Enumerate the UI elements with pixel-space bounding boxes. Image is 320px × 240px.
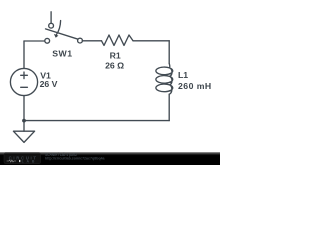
- wire right vertical lower: [168, 94, 170, 120]
- svg-text:SW1: SW1: [52, 48, 72, 58]
- svg-text:L1: L1: [178, 70, 188, 80]
- SW1 right terminal circle: [78, 38, 83, 43]
- ground symbol: [13, 131, 34, 142]
- wire V1 to junction: [23, 96, 25, 121]
- svg-text:26 Ω: 26 Ω: [105, 61, 124, 71]
- resistor R1 zigzag: [102, 35, 134, 45]
- svg-text:260 mH: 260 mH: [178, 81, 212, 91]
- svg-text:LAB: LAB: [22, 159, 35, 163]
- SW1 actuation arrow: [56, 21, 60, 35]
- wire switch to resistor: [82, 40, 101, 42]
- V1 minus sign: [21, 86, 28, 88]
- logo squiggle and LAB: [7, 160, 17, 162]
- ground stub wire: [23, 121, 25, 132]
- logo bolt dot: [19, 160, 20, 162]
- wire top-left horizontal: [24, 40, 45, 42]
- wire left vertical upper: [23, 41, 25, 68]
- svg-text:http://circuitlab.com/c72ac7q8: http://circuitlab.com/c72ac7q8bq4a: [45, 157, 105, 161]
- SW1 left terminal circle: [45, 38, 50, 43]
- svg-text:26 V: 26 V: [40, 79, 58, 89]
- SW1 top stub wire: [50, 12, 52, 23]
- wire right vertical upper: [168, 41, 170, 64]
- junction node dot: [22, 119, 26, 123]
- SW1 top terminal circle: [49, 23, 54, 28]
- wire bottom horizontal: [24, 120, 169, 122]
- inductor L1 coil: [156, 64, 173, 95]
- CircuitLab logo box: [4, 153, 41, 164]
- SW1 blade: [46, 29, 79, 39]
- V1 plus sign: [21, 72, 28, 79]
- wire resistor to right corner: [133, 40, 169, 42]
- voltage source V1: [10, 68, 37, 95]
- switch SW1: [45, 12, 83, 43]
- svg-text:R1: R1: [110, 51, 121, 61]
